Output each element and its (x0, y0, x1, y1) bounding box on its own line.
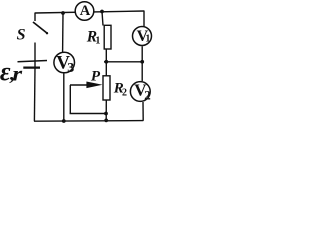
svg-text:2: 2 (144, 87, 151, 102)
wire wiper return bottom (70, 113, 106, 115)
label R2 (113, 81, 127, 99)
resistor R1 (104, 25, 111, 49)
svg-text:S: S (17, 27, 26, 44)
wire battery bottom lead (33, 68, 36, 122)
label epsilon r (0, 57, 22, 86)
switch S contact drop (34, 13, 36, 22)
svg-text:2: 2 (122, 88, 127, 99)
label P (91, 69, 101, 85)
svg-text:3: 3 (67, 61, 74, 76)
node junction wiper-R2 (104, 112, 108, 116)
potentiometer wiper arrow P (70, 82, 103, 89)
svg-text:A: A (80, 3, 91, 19)
wire V2 top lead (141, 62, 143, 81)
svg-text:1: 1 (145, 34, 150, 45)
wire top horizontal (35, 11, 144, 13)
voltmeter V1 (133, 27, 152, 46)
node junction V1-V2 (140, 60, 144, 64)
wire middle horizontal (104, 61, 142, 63)
svg-text:1: 1 (95, 36, 100, 47)
wire battery top lead (34, 43, 36, 68)
wire wiper left leg (69, 85, 71, 114)
resistor R2 (103, 76, 110, 100)
switch S blade (33, 22, 48, 34)
svg-text:r: r (12, 63, 22, 85)
wire R2 top lead (105, 62, 107, 76)
wire V3 top lead (62, 13, 64, 52)
battery long plate (18, 61, 48, 62)
ammeter A (75, 2, 94, 21)
node junction top-left (61, 11, 65, 15)
battery short plate (23, 66, 40, 68)
wire R1 top lead (102, 12, 103, 26)
wire V2 bottom lead (142, 102, 144, 121)
voltmeter V2 (130, 81, 150, 103)
wire V3 bottom lead (63, 74, 65, 122)
voltmeter V3 (54, 52, 75, 76)
svg-text:P: P (91, 69, 101, 85)
wire V1 bottom lead (141, 46, 143, 62)
label R1 (86, 29, 101, 47)
node junction R1-R2 (104, 60, 108, 64)
wire R2 bottom lead (105, 100, 107, 121)
node junction R1 top (100, 10, 104, 14)
wire bottom horizontal (34, 120, 143, 123)
node junction R2 bottom (104, 119, 108, 123)
node junction bottom-left (62, 119, 66, 123)
label S (17, 27, 26, 44)
wire V1 top lead (143, 11, 145, 28)
wire R1 bottom lead (105, 49, 107, 62)
